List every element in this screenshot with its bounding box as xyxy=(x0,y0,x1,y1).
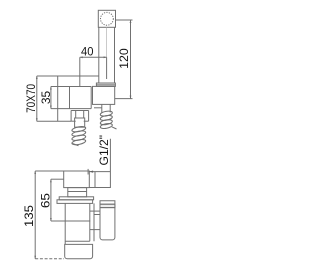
centerline of hand shower xyxy=(106,27,108,57)
dimension 40 line xyxy=(80,56,107,58)
valve collar xyxy=(68,188,87,197)
dimension 35 line xyxy=(50,87,52,109)
outlet horizontal behind handle xyxy=(90,229,100,231)
bracket body right edge xyxy=(90,87,92,109)
wall line xyxy=(57,76,59,121)
hand shower head square (top view) xyxy=(98,10,115,27)
valve wall plate xyxy=(57,200,93,204)
arrow 70X70 bottom xyxy=(36,118,38,121)
hidden outlet edge behind handle xyxy=(93,203,95,241)
valve body bottom line xyxy=(65,240,90,242)
svg-text:135: 135 xyxy=(22,205,36,227)
valve body right edge xyxy=(89,203,91,241)
svg-text:G1/2": G1/2" xyxy=(97,135,111,166)
valve bottom section xyxy=(65,244,93,258)
svg-text:120: 120 xyxy=(117,48,131,69)
knurled circle of shower head xyxy=(101,12,114,25)
holder collar xyxy=(96,83,115,86)
dimension 65 line xyxy=(50,179,52,221)
thread tick on fitting xyxy=(87,169,89,175)
arrow 35 bottom xyxy=(50,106,52,109)
bracket body left edge xyxy=(69,87,71,109)
bracket plate bottom edge xyxy=(51,108,91,110)
arrow 120 top xyxy=(130,20,132,23)
dimension 70X70 line xyxy=(36,76,38,121)
dimension 135 line xyxy=(34,171,36,259)
arrow 40 left xyxy=(80,56,83,58)
bracket plate top edge xyxy=(51,86,91,88)
dimension 120 top extension line xyxy=(116,19,133,21)
dimension 120 line xyxy=(130,20,132,99)
svg-text:65: 65 xyxy=(39,193,53,208)
handle stem lines xyxy=(90,210,100,212)
dimension 40 left extension line xyxy=(79,57,81,86)
valve flange xyxy=(59,197,93,200)
right hose coil xyxy=(100,110,117,129)
arrow 70X70 top xyxy=(36,76,38,79)
arrow 35 top xyxy=(50,87,52,90)
dimension 120 bottom extension line xyxy=(115,98,133,100)
valve top fitting xyxy=(64,171,90,188)
svg-text:70X70: 70X70 xyxy=(24,84,38,113)
holder block xyxy=(93,86,115,104)
hidden dashed base line xyxy=(35,258,64,260)
arrow 40 right xyxy=(104,56,107,58)
valve handle xyxy=(100,201,115,240)
arrow 120 bottom xyxy=(130,96,132,99)
small stub right of fitting xyxy=(94,172,96,188)
valve body left edge xyxy=(64,203,66,244)
svg-text:35: 35 xyxy=(39,91,53,105)
arrow 65 bottom xyxy=(50,218,52,221)
arrow 135 top xyxy=(34,171,36,174)
valve joint line extended xyxy=(51,220,90,222)
arrow 65 top xyxy=(50,179,52,182)
dimension 65 top extension xyxy=(51,178,64,180)
wire: shower tube left edge xyxy=(98,27,100,83)
wire: shower tube right edge xyxy=(114,27,116,83)
wall top line xyxy=(37,75,99,77)
svg-text:40: 40 xyxy=(81,44,94,58)
hose nut below bracket xyxy=(71,110,89,112)
G1/2 leader arrowhead xyxy=(89,171,93,173)
left hose coil xyxy=(71,126,86,146)
small line left of hose neck xyxy=(94,107,102,109)
dimension 70X70 bottom extension xyxy=(37,120,71,122)
dimension 135 top extension xyxy=(35,170,64,172)
dimension arrows xyxy=(34,20,131,259)
hose ferrule xyxy=(75,118,85,127)
hose neck below holder xyxy=(101,104,103,112)
G1/2 leader line xyxy=(89,139,110,188)
arrow 135 bottom xyxy=(34,256,36,259)
